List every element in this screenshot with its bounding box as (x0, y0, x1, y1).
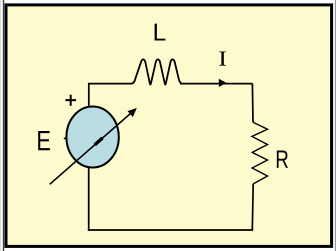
label E (38, 131, 50, 150)
resistor R zigzag (252, 122, 268, 184)
wire right vertical top (251, 84, 254, 123)
wire bottom horizontal (88, 229, 253, 231)
label I (219, 52, 226, 66)
variable arrow head (128, 108, 137, 117)
label R (277, 150, 288, 167)
window right edge line (334, 0, 336, 251)
variable arrow thick middle (95, 138, 103, 145)
ellipse pen-joint tick (64, 137, 67, 139)
wire right vertical bottom (251, 184, 254, 230)
inductor L (131, 59, 182, 84)
wire top horizontal right (180, 83, 252, 85)
variable arrow shaft (50, 113, 132, 185)
window left edge line (3, 0, 4, 251)
window left outer gray edge (0, 0, 2, 251)
plus sign (65, 95, 76, 106)
label L (155, 24, 166, 41)
wire left vertical (bottom wire to source bottom) (88, 167, 90, 231)
current arrow head (219, 79, 227, 87)
source E circle (66, 107, 118, 168)
wire source top to top-left corner (89, 84, 133, 107)
window right outer gray edge (335, 0, 336, 251)
